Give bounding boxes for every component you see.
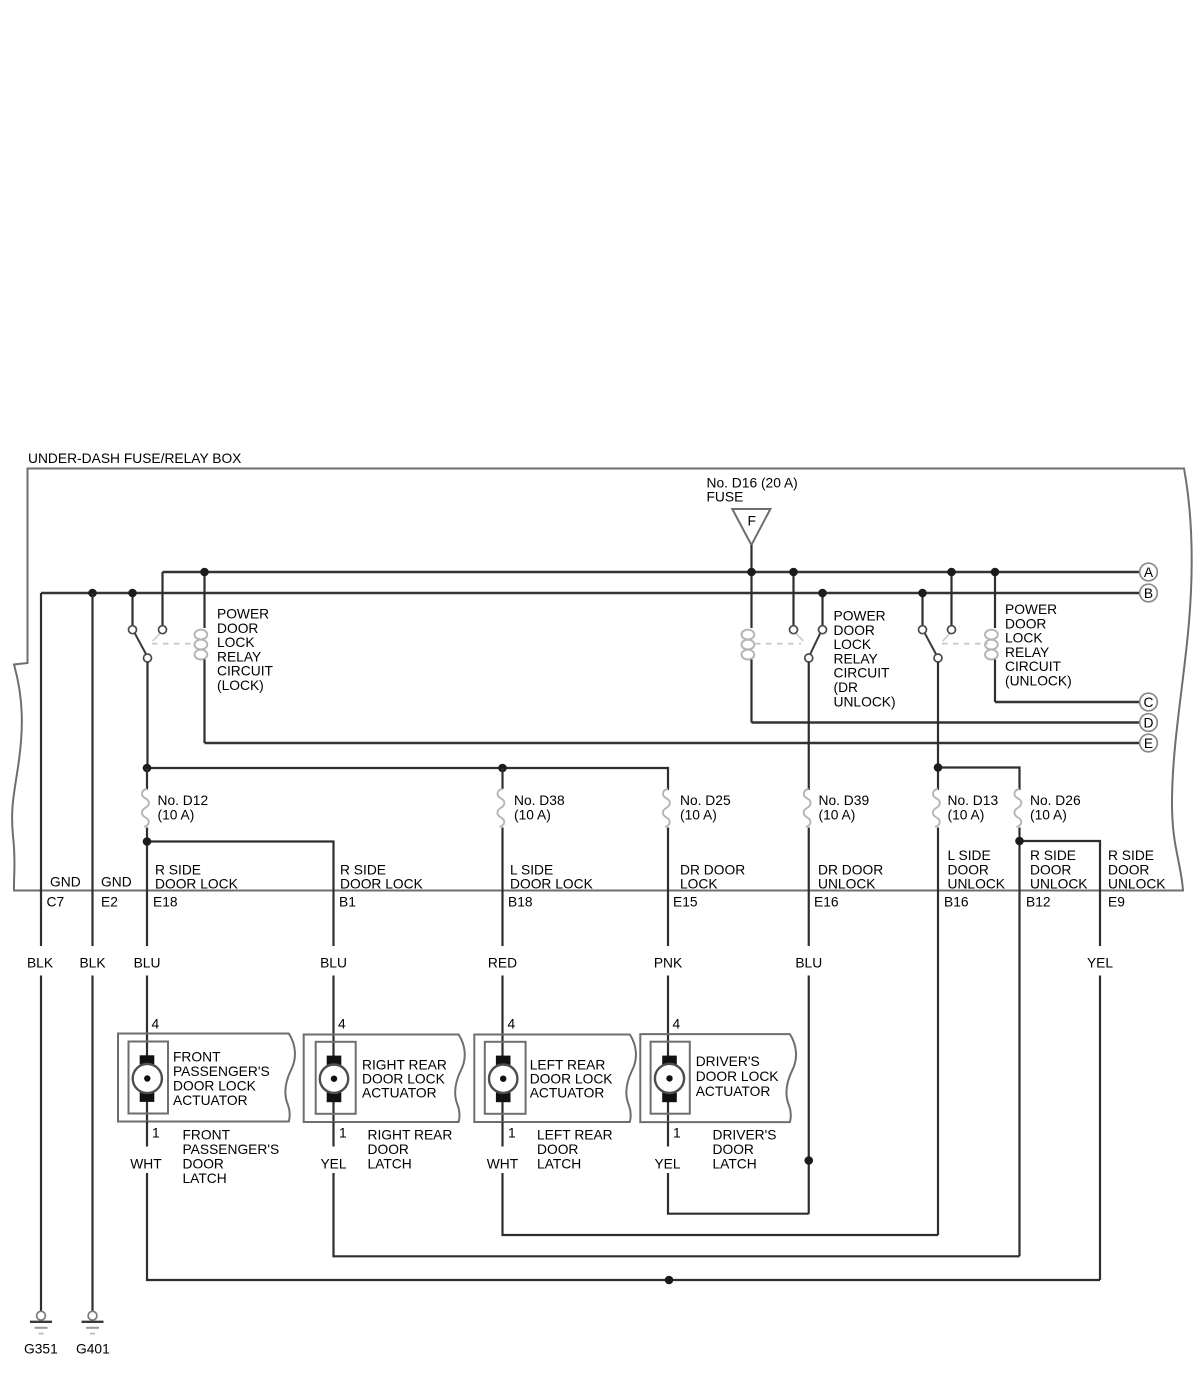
svg-text:E16: E16 <box>814 895 839 910</box>
label: No. D39 (10 A) <box>819 793 870 823</box>
svg-text:(10 A): (10 A) <box>158 808 195 823</box>
connector circle D <box>1140 714 1158 732</box>
label: GND C7 <box>47 875 81 910</box>
wire: bus A to K2 coil top <box>750 572 752 628</box>
label: No. D25 (10 A) <box>680 793 731 823</box>
svg-text:C7: C7 <box>47 895 65 910</box>
motor M2 symbol <box>320 1056 348 1103</box>
junction dot at K3 common node <box>934 763 943 772</box>
motor M4 symbol <box>655 1056 684 1103</box>
wire: right rear latch segment above label <box>332 1122 334 1147</box>
fuse D26 symbol <box>1014 789 1021 1256</box>
wire: branch node to fuse D26 <box>938 768 1020 791</box>
svg-text:FRONT: FRONT <box>183 1128 231 1143</box>
label: G351 <box>24 1342 58 1357</box>
label: YEL wire E9 <box>1087 956 1113 971</box>
ground G401 <box>82 1311 104 1333</box>
svg-text:ACTUATOR: ACTUATOR <box>173 1093 248 1108</box>
wire: bus B to K1 switch left terminal <box>131 593 133 626</box>
relay K3 coil-switch dashed link <box>942 643 988 645</box>
label: UNDER-DASH FUSE/RELAY BOX <box>28 451 241 466</box>
wire: K2 common down to fuse D39 <box>808 662 810 790</box>
svg-text:4: 4 <box>673 1017 681 1032</box>
label: LEFT REAR DOOR LOCK ACTUATOR <box>530 1058 614 1101</box>
svg-text:LOCK: LOCK <box>680 877 718 892</box>
label: LEFT REAR DOOR LATCH <box>537 1128 613 1172</box>
label: BLK wire E2 <box>79 956 106 971</box>
svg-text:DOOR LOCK: DOOR LOCK <box>362 1072 446 1087</box>
svg-text:No. D26: No. D26 <box>1030 793 1081 808</box>
wire: fuse F to bus A <box>750 545 752 572</box>
fuse F No. D16 (20 A) label <box>707 476 798 505</box>
svg-text:RIGHT REAR: RIGHT REAR <box>362 1058 447 1073</box>
svg-text:LOCK: LOCK <box>834 637 872 652</box>
svg-text:DR DOOR: DR DOOR <box>818 863 883 878</box>
wire: D12 to E18, branch to B1 <box>146 842 148 947</box>
junction dot on bus A at K3 coil <box>991 568 1000 577</box>
label: YEL wire right rear latch <box>320 1157 346 1172</box>
wire: right rear latch to B12 return line <box>334 1173 1020 1256</box>
svg-text:LATCH: LATCH <box>537 1157 581 1172</box>
wire: E15 to driver actuator <box>667 976 669 1123</box>
fuse D12 symbol <box>142 768 149 842</box>
svg-text:DOOR LOCK: DOOR LOCK <box>696 1069 780 1084</box>
svg-text:BLU: BLU <box>320 956 347 971</box>
junction dot on bus A at fuse F <box>747 568 756 577</box>
junction dot on bus B at GND E2 wire <box>88 589 97 598</box>
svg-text:POWER: POWER <box>217 607 269 622</box>
wire: left rear latch segment above label <box>501 1122 503 1147</box>
label: pin 1 driver latch <box>673 1126 681 1141</box>
label: BLU wire B1 <box>320 956 347 971</box>
label: pin 1 right rear latch <box>339 1126 347 1141</box>
wire: bus B to ground G401 (BLK) <box>91 593 93 1311</box>
junction dot on bus A at K1 coil <box>200 568 209 577</box>
svg-text:1: 1 <box>152 1126 160 1141</box>
wire: E9 wire lower segment <box>1099 976 1101 1281</box>
svg-text:RELAY: RELAY <box>217 649 261 664</box>
svg-text:DOOR: DOOR <box>368 1142 409 1157</box>
wire: bus A to K3 coil top <box>994 572 996 628</box>
svg-text:WHT: WHT <box>487 1157 519 1172</box>
svg-text:BLU: BLU <box>795 956 822 971</box>
junction dot on bus B at K3 switch <box>918 589 927 598</box>
svg-text:BLK: BLK <box>27 956 54 971</box>
label: WHT wire left rear latch <box>487 1157 519 1172</box>
junction dot on bus A at K2 switch <box>789 568 798 577</box>
label: POWER DOOR LOCK RELAY CIRCUIT (DR UNLOCK) <box>834 609 896 710</box>
svg-text:DR DOOR: DR DOOR <box>680 863 745 878</box>
label: pin 4 left rear actuator <box>508 1017 516 1032</box>
svg-text:GND: GND <box>101 875 132 890</box>
wire: bus A to K1 coil top <box>203 572 205 628</box>
svg-text:FRONT: FRONT <box>173 1050 221 1065</box>
bus wire A <box>163 571 1140 574</box>
svg-text:LATCH: LATCH <box>183 1171 227 1186</box>
svg-text:YEL: YEL <box>1087 956 1113 971</box>
label: R SIDE DOOR LOCK E18 <box>153 863 239 910</box>
relay K2 switch <box>790 626 827 662</box>
svg-text:PASSENGER'S: PASSENGER'S <box>173 1064 270 1079</box>
svg-text:FUSE: FUSE <box>707 490 744 505</box>
junction dot on bus B at K1 switch <box>128 589 137 598</box>
label: DR DOOR LOCK E15 <box>673 863 745 910</box>
left rear door lock actuator M3 box <box>474 1035 636 1123</box>
svg-text:R SIDE: R SIDE <box>1030 848 1076 863</box>
wire: front passenger latch segment above label <box>146 1122 148 1147</box>
svg-text:F: F <box>748 514 756 529</box>
svg-text:UNDER-DASH FUSE/RELAY BOX: UNDER-DASH FUSE/RELAY BOX <box>28 451 241 466</box>
junction dot on bus A at K3 switch <box>947 568 956 577</box>
bus wire C <box>995 701 1140 704</box>
svg-text:E2: E2 <box>101 895 118 910</box>
label: FRONT PASSENGER'S DOOR LATCH <box>183 1128 280 1187</box>
svg-text:G401: G401 <box>76 1342 110 1357</box>
svg-text:R SIDE: R SIDE <box>340 863 386 878</box>
svg-text:RED: RED <box>488 956 517 971</box>
fuse F No. D16 triangle symbol <box>732 509 770 545</box>
svg-text:LEFT REAR: LEFT REAR <box>537 1128 613 1143</box>
bus wire B <box>41 592 1140 595</box>
svg-text:DOOR: DOOR <box>537 1142 578 1157</box>
svg-text:WHT: WHT <box>130 1157 162 1172</box>
label: No. D26 (10 A) <box>1030 793 1081 823</box>
junction dot at D12 node <box>143 764 152 773</box>
label: R SIDE DOOR UNLOCK E9 <box>1108 848 1166 910</box>
relay K3 switch <box>919 626 956 662</box>
splice dot on front passenger return line <box>665 1276 674 1285</box>
svg-text:PNK: PNK <box>654 956 683 971</box>
label: pin 4 front passenger actuator <box>152 1017 160 1032</box>
svg-text:DOOR: DOOR <box>1005 616 1046 631</box>
label: DRIVER'S DOOR LOCK ACTUATOR <box>696 1054 780 1099</box>
relay K1 coil <box>195 630 208 743</box>
svg-text:DRIVER'S: DRIVER'S <box>713 1128 777 1143</box>
bus wire E <box>205 742 1140 745</box>
relay K3 coil <box>985 630 998 702</box>
wire: lock distribution line <box>147 768 668 790</box>
label: POWER DOOR LOCK RELAY CIRCUIT (LOCK) <box>217 607 274 694</box>
svg-text:DOOR: DOOR <box>834 623 875 638</box>
svg-text:C: C <box>1144 695 1154 710</box>
driver's door lock actuator M4 box <box>640 1034 796 1122</box>
wire: B1 to right rear actuator <box>332 976 334 1123</box>
svg-text:DOOR LOCK: DOOR LOCK <box>340 877 424 892</box>
relay K2 coil <box>742 630 755 723</box>
connector circle C <box>1140 693 1158 711</box>
svg-text:DRIVER'S: DRIVER'S <box>696 1054 760 1069</box>
relay K2 coil-switch dashed link <box>755 643 801 645</box>
svg-text:UNLOCK: UNLOCK <box>1030 877 1088 892</box>
junction dot on bus B at K2 switch <box>818 589 827 598</box>
front passenger's door lock actuator M1 box <box>118 1034 295 1122</box>
label: DR DOOR UNLOCK E16 <box>814 863 883 910</box>
svg-text:4: 4 <box>338 1017 346 1032</box>
svg-text:L SIDE: L SIDE <box>510 863 553 878</box>
svg-text:DOOR: DOOR <box>183 1157 224 1172</box>
svg-text:1: 1 <box>339 1126 347 1141</box>
svg-text:(DR: (DR <box>834 680 859 695</box>
wire: bus A to K3 switch right terminal <box>950 572 952 626</box>
connector circle A <box>1140 563 1158 581</box>
relay K1 switch <box>129 626 167 662</box>
label: POWER DOOR LOCK RELAY CIRCUIT (UNLOCK) <box>1005 602 1072 689</box>
svg-text:G351: G351 <box>24 1342 58 1357</box>
svg-text:R SIDE: R SIDE <box>155 863 201 878</box>
svg-text:(10 A): (10 A) <box>1030 808 1067 823</box>
svg-text:4: 4 <box>152 1017 160 1032</box>
svg-text:No. D39: No. D39 <box>819 793 870 808</box>
fuse D39 symbol <box>804 789 811 946</box>
wire: E16 down to driver latch line <box>808 976 810 1214</box>
svg-text:DOOR: DOOR <box>948 863 989 878</box>
splice dot on E16 wire <box>804 1156 813 1165</box>
fuse D38 symbol <box>497 768 504 946</box>
svg-text:YEL: YEL <box>320 1157 346 1172</box>
svg-text:R SIDE: R SIDE <box>1108 848 1154 863</box>
svg-text:B1: B1 <box>339 895 356 910</box>
label: YEL wire driver latch <box>654 1157 680 1172</box>
svg-text:DOOR: DOOR <box>1108 863 1149 878</box>
label: pin 4 right rear actuator <box>338 1017 346 1032</box>
wire: bus A to K2 switch left terminal <box>792 572 794 626</box>
svg-text:L SIDE: L SIDE <box>948 848 991 863</box>
fuse D13 symbol <box>933 789 940 1235</box>
svg-text:DOOR: DOOR <box>1030 863 1071 878</box>
svg-text:UNLOCK): UNLOCK) <box>834 694 896 709</box>
svg-text:DOOR LOCK: DOOR LOCK <box>530 1072 614 1087</box>
wire: driver latch to E16 return line <box>668 1173 809 1214</box>
svg-text:LATCH: LATCH <box>713 1157 757 1172</box>
label: No. D13 (10 A) <box>948 793 999 823</box>
svg-text:(LOCK): (LOCK) <box>217 678 264 693</box>
label: RIGHT REAR DOOR LOCK ACTUATOR <box>362 1058 447 1101</box>
svg-text:A: A <box>1144 565 1154 580</box>
svg-text:DOOR LOCK: DOOR LOCK <box>173 1079 257 1094</box>
svg-text:RELAY: RELAY <box>1005 645 1049 660</box>
svg-text:B12: B12 <box>1026 895 1051 910</box>
svg-text:UNLOCK: UNLOCK <box>818 877 876 892</box>
svg-text:ACTUATOR: ACTUATOR <box>530 1086 605 1101</box>
svg-text:D: D <box>1144 715 1154 730</box>
svg-text:No. D38: No. D38 <box>514 793 565 808</box>
svg-text:RELAY: RELAY <box>834 651 878 666</box>
fuse D25 symbol <box>663 789 670 946</box>
label: pin 1 front passenger latch <box>152 1126 160 1141</box>
connector circle B <box>1140 584 1158 602</box>
svg-text:UNLOCK: UNLOCK <box>1108 877 1166 892</box>
svg-text:BLU: BLU <box>134 956 161 971</box>
svg-text:PASSENGER'S: PASSENGER'S <box>183 1142 280 1157</box>
junction dot at D38 node <box>498 764 507 773</box>
wire: branch D26 node to E9 <box>1020 841 1101 946</box>
svg-text:LOCK: LOCK <box>217 635 255 650</box>
wire: bus B to K3 switch left terminal <box>921 593 923 626</box>
svg-text:LEFT REAR: LEFT REAR <box>530 1058 606 1073</box>
label: RIGHT REAR DOOR LATCH <box>368 1128 453 1172</box>
svg-text:No. D16 (20 A): No. D16 (20 A) <box>707 476 798 491</box>
svg-text:(10 A): (10 A) <box>819 808 856 823</box>
wire: bus B to K2 switch right terminal <box>821 593 823 626</box>
junction dot at D12 lower node <box>143 837 152 846</box>
svg-text:CIRCUIT: CIRCUIT <box>834 666 891 681</box>
wire: E18 to front passenger actuator <box>146 976 148 1122</box>
svg-text:DOOR: DOOR <box>713 1142 754 1157</box>
svg-text:E: E <box>1144 736 1153 751</box>
svg-text:E15: E15 <box>673 895 698 910</box>
svg-text:ACTUATOR: ACTUATOR <box>696 1084 771 1099</box>
label: GND E2 <box>101 875 132 910</box>
ground G351 <box>30 1311 52 1333</box>
svg-text:(10 A): (10 A) <box>514 808 551 823</box>
junction dot at D26 lower node <box>1015 837 1024 846</box>
svg-text:No. D25: No. D25 <box>680 793 731 808</box>
svg-text:DOOR: DOOR <box>217 621 258 636</box>
connector circle E <box>1140 734 1158 752</box>
label: BLK wire C7 <box>27 956 54 971</box>
wire: B18 to left rear actuator <box>501 976 503 1123</box>
svg-text:4: 4 <box>508 1017 516 1032</box>
label: BLU wire E18 <box>134 956 161 971</box>
svg-text:E18: E18 <box>153 895 178 910</box>
svg-text:B: B <box>1144 586 1153 601</box>
svg-text:1: 1 <box>508 1126 516 1141</box>
svg-text:1: 1 <box>673 1126 681 1141</box>
label: DRIVER'S DOOR LATCH <box>713 1128 777 1172</box>
svg-text:RIGHT REAR: RIGHT REAR <box>368 1128 453 1143</box>
wire: K1 common down to distribution node <box>146 662 149 768</box>
label: FRONT PASSENGER'S DOOR LOCK ACTUATOR <box>173 1050 270 1109</box>
svg-text:DOOR LOCK: DOOR LOCK <box>155 877 239 892</box>
label: RED wire B18 <box>488 956 517 971</box>
wire: bus A left end down to K1 switch right terminal <box>161 572 163 626</box>
svg-text:(10 A): (10 A) <box>680 808 717 823</box>
svg-text:CIRCUIT: CIRCUIT <box>217 664 274 679</box>
label: PNK wire E15 <box>654 956 683 971</box>
relay K1 coil-switch dashed link <box>152 643 196 645</box>
label: No. D38 (10 A) <box>514 793 565 823</box>
wire: left rear latch to B16 return line <box>503 1173 939 1235</box>
motor M3 symbol <box>489 1056 517 1103</box>
wire: K3 common down to node, junction, branch to fuse D26 <box>937 662 939 790</box>
svg-text:BLK: BLK <box>79 956 106 971</box>
wire: bus B left end down to ground G351 (BLK) <box>40 593 42 1311</box>
svg-text:CIRCUIT: CIRCUIT <box>1005 659 1062 674</box>
bus wire D <box>752 721 1140 724</box>
svg-text:GND: GND <box>50 875 81 890</box>
label: BLU wire E16 <box>795 956 822 971</box>
svg-text:B18: B18 <box>508 895 533 910</box>
svg-text:ACTUATOR: ACTUATOR <box>362 1086 437 1101</box>
svg-text:No. D12: No. D12 <box>158 793 209 808</box>
label: WHT wire front passenger latch <box>130 1157 162 1172</box>
svg-text:DOOR LOCK: DOOR LOCK <box>510 877 594 892</box>
svg-text:POWER: POWER <box>834 609 886 624</box>
label: No. D12 (10 A) <box>158 793 209 823</box>
svg-text:LATCH: LATCH <box>368 1157 412 1172</box>
label: L SIDE DOOR LOCK B18 <box>508 863 594 910</box>
wire: front passenger latch to E9 return line <box>147 1173 1100 1280</box>
label: pin 1 left rear latch <box>508 1126 516 1141</box>
wire: driver latch segment above label <box>667 1122 669 1146</box>
svg-text:LOCK: LOCK <box>1005 631 1043 646</box>
svg-text:(10 A): (10 A) <box>948 808 985 823</box>
label: L SIDE DOOR UNLOCK B16 <box>944 848 1006 910</box>
label: G401 <box>76 1342 110 1357</box>
right rear door lock actuator M2 box <box>304 1035 465 1123</box>
label: pin 4 driver actuator <box>673 1017 681 1032</box>
svg-text:(UNLOCK): (UNLOCK) <box>1005 674 1072 689</box>
label: R SIDE DOOR UNLOCK B12 <box>1026 848 1088 910</box>
wire: branch to B1 <box>147 842 334 947</box>
label: R SIDE DOOR LOCK B1 <box>339 863 424 910</box>
svg-text:E9: E9 <box>1108 895 1125 910</box>
motor M1 symbol <box>133 1055 162 1102</box>
svg-text:B16: B16 <box>944 895 969 910</box>
svg-text:No. D13: No. D13 <box>948 793 999 808</box>
under-dash fuse/relay box outline <box>12 469 1192 891</box>
svg-text:POWER: POWER <box>1005 602 1057 617</box>
svg-text:UNLOCK: UNLOCK <box>948 877 1006 892</box>
svg-text:YEL: YEL <box>654 1157 680 1172</box>
